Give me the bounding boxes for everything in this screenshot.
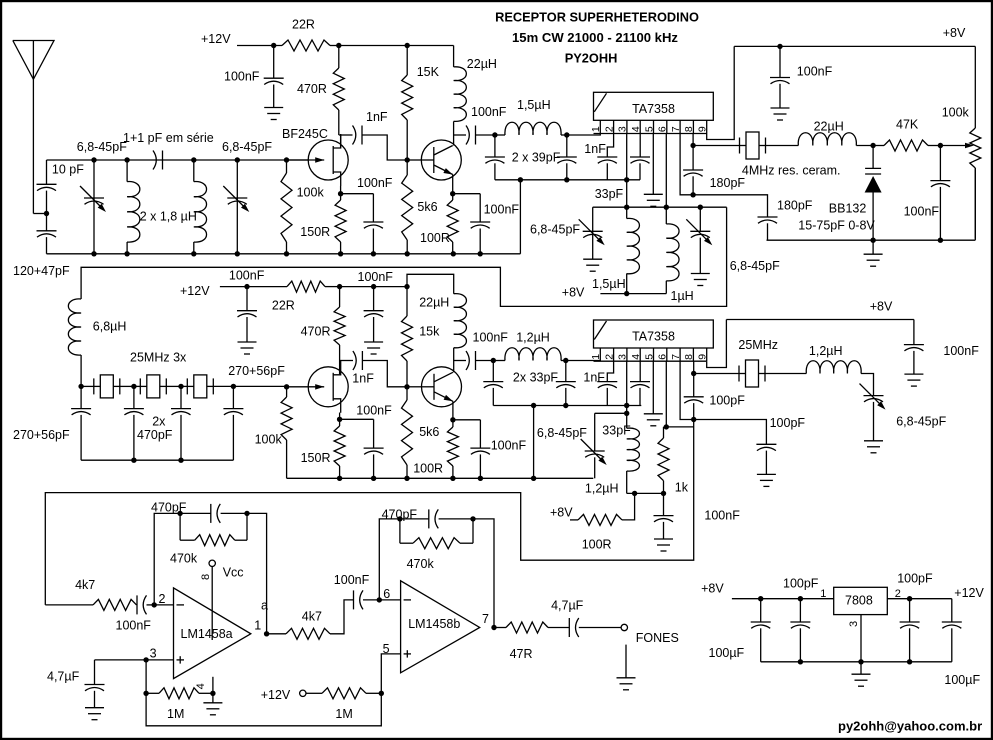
node base Q2 stage1 (405, 157, 410, 162)
svg-text:+8V: +8V (870, 300, 893, 314)
ground FONES (625, 645, 627, 678)
node 180pF bottom (690, 192, 695, 197)
resistor 22R stage2 (287, 281, 325, 292)
svg-text:2x 33pF: 2x 33pF (513, 371, 559, 385)
ground pin5 stage1 (652, 134, 654, 195)
svg-text:100R: 100R (413, 462, 443, 476)
svg-text:15-75pF 0-8V: 15-75pF 0-8V (798, 218, 875, 232)
wire pin9 to +8V rail (707, 46, 735, 139)
node pin6 1k (664, 424, 669, 429)
inductor 2x1,8uH coil B (191, 157, 196, 162)
node 100R up (632, 491, 637, 496)
svg-text:6,8-45pF: 6,8-45pF (896, 415, 946, 429)
resistor 100k stage1 (286, 160, 288, 173)
node source junction stage2 (337, 417, 342, 422)
svg-text:22R: 22R (292, 18, 315, 32)
svg-text:25MHz 3x: 25MHz 3x (130, 350, 187, 364)
node cap3 psu (907, 596, 912, 601)
node +8V coil (624, 291, 629, 296)
svg-text:10 pF: 10 pF (52, 163, 84, 177)
svg-text:6,8-45pF: 6,8-45pF (537, 426, 587, 440)
svg-text:100nF: 100nF (116, 618, 152, 632)
node 470k left A (177, 511, 182, 516)
wire emitter stage1 (452, 175, 454, 194)
wire pin6 down (665, 134, 667, 208)
svg-text:7808: 7808 (845, 594, 873, 608)
svg-text:4k7: 4k7 (75, 578, 95, 592)
capacitor 100nF source bypass stage2 (340, 418, 374, 420)
osc tank wire W1 (593, 206, 727, 208)
svg-text:22µH: 22µH (419, 296, 449, 310)
svg-text:+8V: +8V (701, 581, 724, 595)
capacitor 180pF pin8 (692, 146, 694, 171)
capacitor 1nF interstage stage1 (341, 134, 353, 136)
svg-text:100nF: 100nF (224, 70, 260, 84)
wire source to 150R (340, 186, 342, 194)
svg-text:2: 2 (603, 126, 615, 132)
svg-text:100pF: 100pF (770, 416, 806, 430)
pin3 stub 7808 (860, 615, 862, 662)
wire feedback B to output (473, 519, 494, 628)
ground bypass stage1 (273, 85, 275, 108)
svg-text:LM1458b: LM1458b (408, 617, 460, 631)
wire pin1 to filter2 (566, 360, 601, 363)
resistor 47K (884, 140, 928, 151)
wire 33pF bottom (493, 405, 641, 407)
svg-text:1: 1 (590, 126, 602, 132)
svg-text:Vcc: Vcc (223, 566, 244, 580)
crystal 4MHz resonator (739, 138, 741, 154)
capacitor 100pF out 2 (694, 420, 767, 445)
node 470k right A (244, 511, 249, 516)
node pin6 (377, 597, 382, 602)
resistor 100R stage2 (452, 420, 454, 427)
svg-text:6,8-45pF: 6,8-45pF (530, 223, 580, 237)
wire 39pF bottom (495, 179, 640, 181)
node filter right (231, 384, 236, 389)
svg-text:1M: 1M (167, 707, 184, 721)
trimmer 6,8-45pF input 1 (91, 157, 96, 162)
svg-text:120+47pF: 120+47pF (13, 264, 70, 278)
node base Q4 stage2 (404, 384, 409, 389)
wire pin5 up (381, 654, 400, 693)
resistor 100k stage2 (284, 384, 289, 389)
capacitor 33pF pin4 stage1 (639, 134, 641, 158)
svg-text:47K: 47K (896, 118, 919, 132)
capacitor 100nF varactor filter (939, 146, 941, 181)
svg-text:3: 3 (150, 646, 157, 660)
wire audio bottom (146, 693, 381, 726)
inductor 2x1,8uH coil A (124, 157, 129, 162)
svg-text:15K: 15K (417, 65, 440, 79)
capacitor 100nF audio in (136, 595, 138, 614)
resistor 4k7 B (286, 628, 330, 639)
resistor 1M B (306, 692, 322, 694)
svg-text:2x: 2x (152, 414, 166, 428)
resistor 150R stage1 (340, 194, 342, 200)
node 100nF +8V (777, 44, 782, 49)
svg-text:1nF: 1nF (352, 372, 374, 386)
svg-text:+12V: +12V (180, 284, 210, 298)
connector +12V circle (300, 690, 306, 696)
capacitor 270+56pF 2 (133, 386, 135, 408)
resistor 5k6 stage1 (406, 160, 408, 175)
resistor 470R (338, 46, 340, 69)
node psu bottom3 (907, 659, 912, 664)
wire filter bottom (81, 459, 233, 461)
capacitor 100uF psu1 (760, 599, 762, 622)
svg-text:3: 3 (617, 354, 629, 360)
svg-text:470pF: 470pF (151, 500, 187, 514)
node pin2 opamp A (152, 602, 157, 607)
resistor 150R stage2 (339, 419, 341, 426)
wire pin2 into opamp (154, 604, 173, 606)
capacitor 1+1pF series (162, 151, 164, 170)
svg-text:PY2OHH: PY2OHH (565, 50, 618, 65)
resistor 470R stage2 (339, 287, 341, 307)
capacitor 33pF left (492, 361, 494, 382)
svg-text:1nF: 1nF (584, 142, 606, 156)
capacitor 1nF interstage stage2 (340, 360, 353, 362)
node pin3 trimmer branch (624, 411, 629, 416)
transistor Q4 NPN stage2 (422, 367, 462, 407)
node filter1 right (564, 132, 569, 137)
wire long osc route to stage2 (81, 207, 727, 306)
wire rail to 15K and coil (339, 45, 454, 47)
wire audio feed route (45, 420, 693, 605)
inductor 1,5uH tank (626, 207, 628, 218)
svg-text:4,7µF: 4,7µF (47, 669, 80, 683)
svg-text:100nF: 100nF (356, 404, 392, 418)
node 1k bottom (661, 491, 666, 496)
svg-text:22µH: 22µH (467, 57, 497, 71)
wire 470R to drain stage2 (339, 361, 341, 375)
svg-text:+8V: +8V (943, 26, 966, 40)
node 470R top (336, 43, 341, 48)
svg-text:33pF: 33pF (595, 187, 624, 201)
svg-text:1M: 1M (335, 707, 352, 721)
resistor 470k B (399, 519, 401, 543)
trimmer 6,8-45pF mixer2 (595, 412, 627, 414)
ground psu (860, 662, 862, 674)
svg-text:100k: 100k (942, 106, 970, 120)
capacitor 100uF psu4 (951, 599, 953, 622)
svg-text:180pF: 180pF (710, 176, 746, 190)
wire pin1 to filter (567, 134, 601, 136)
svg-text:4,7µF: 4,7µF (551, 599, 584, 613)
svg-text:4: 4 (630, 126, 642, 132)
node 100k bottom rail (284, 251, 289, 256)
svg-text:1: 1 (820, 588, 826, 600)
svg-text:RECEPTOR SUPERHETERODINO: RECEPTOR SUPERHETERODINO (495, 9, 699, 24)
svg-text:6: 6 (657, 354, 669, 360)
svg-text:25MHz: 25MHz (738, 338, 778, 352)
node 470k left B (397, 516, 402, 521)
transistor BF245 Q3 JFET stage2 (308, 367, 348, 407)
wire osc bottom (767, 239, 976, 241)
inductor 22uH osc (798, 133, 856, 146)
svg-text:100nF: 100nF (358, 270, 394, 284)
wire bottom rail stage1 (47, 253, 521, 255)
svg-text:9: 9 (697, 354, 709, 360)
node output B (491, 625, 496, 630)
svg-text:100nF: 100nF (704, 509, 740, 523)
svg-text:1: 1 (590, 354, 602, 360)
wire 470R to JFET drain (340, 135, 342, 148)
node pin3 top (624, 177, 629, 182)
svg-text:100nF: 100nF (229, 268, 265, 282)
svg-text:100R: 100R (582, 538, 612, 552)
input tank: top rail stage1 (47, 159, 309, 161)
IF filter 2: inductor 1,2uH (505, 348, 561, 361)
node filter1 input (492, 132, 497, 137)
node ground drop filter1 (518, 177, 523, 182)
svg-text:100nF: 100nF (473, 331, 509, 345)
node pin3 top stage2 (624, 403, 629, 408)
svg-text:8: 8 (683, 354, 695, 360)
inductor 1uH tank (665, 207, 667, 224)
node 39pF right bottom (564, 177, 569, 182)
svg-text:7: 7 (670, 354, 682, 360)
svg-text:100nF: 100nF (943, 344, 979, 358)
svg-text:100k: 100k (255, 433, 283, 447)
svg-text:+12V: +12V (261, 688, 291, 702)
pin4 stub (212, 677, 214, 694)
node filter left (78, 384, 83, 389)
resistor 15k stage2 (406, 287, 408, 316)
capacitor 1nF mixer input stage2 (607, 361, 613, 381)
svg-text:2: 2 (603, 354, 615, 360)
svg-text:470R: 470R (301, 325, 331, 339)
node psu pin3 bottom (858, 659, 863, 664)
svg-text:py2ohh@yahoo.com.br: py2ohh@yahoo.com.br (838, 719, 982, 734)
capacitor 39pF right (566, 135, 568, 157)
crystal 25MHz a (93, 378, 95, 394)
node 15K top (405, 43, 410, 48)
resistor 100R stage1 (452, 194, 454, 200)
svg-text:100pF: 100pF (783, 576, 819, 590)
svg-text:470k: 470k (170, 552, 198, 566)
capacitor 100pF psu2 (799, 599, 801, 622)
capacitor 470pF B (400, 518, 429, 520)
node 470R top stage2 (337, 284, 342, 289)
svg-text:BF245C: BF245C (282, 127, 328, 141)
wire pin7 to 180pF node (680, 134, 693, 195)
op IC TA7358 #1 (594, 92, 714, 120)
wire pin6 into opamp (379, 599, 400, 601)
svg-text:3: 3 (848, 621, 860, 627)
capacitor 39pF left (494, 135, 496, 157)
svg-text:270+56pF: 270+56pF (13, 428, 70, 442)
capacitor 100nF emitter bypass stage1 (453, 193, 481, 195)
svg-text:6,8µH: 6,8µH (93, 319, 127, 333)
wire feedback A to output (247, 513, 267, 633)
svg-text:9: 9 (697, 126, 709, 132)
svg-text:TA7358: TA7358 (632, 330, 675, 344)
wire to 100nF B (330, 600, 354, 634)
crystal 25MHz output (738, 366, 740, 382)
inductor 1,2uH output (806, 361, 861, 374)
resistor 470k A (179, 513, 181, 540)
svg-text:+8V: +8V (562, 286, 585, 300)
node 15k top stage2 (404, 284, 409, 289)
wire coil to trimmer (861, 374, 874, 396)
svg-text:4k7: 4k7 (302, 610, 322, 624)
svg-text:1,2µH: 1,2µH (585, 481, 619, 495)
svg-text:6,8-45pF: 6,8-45pF (730, 259, 780, 273)
node pin4 (210, 691, 215, 696)
node emitter junction stage1 (450, 191, 455, 196)
crystal 25MHz b (139, 378, 141, 394)
node psu bottom2 (798, 659, 803, 664)
wire +8V rail stage2 (726, 319, 914, 321)
crystal 25MHz c (186, 378, 188, 394)
svg-text:5k6: 5k6 (417, 200, 437, 214)
capacitor 100nF bypass2 stage2 (373, 287, 375, 311)
svg-text:2 x 1,8 µH: 2 x 1,8 µH (140, 210, 197, 224)
node pin8 crystal (692, 134, 694, 146)
pin8 Vcc stub (211, 566, 213, 640)
trimmer 6,8-45pF input 2 (235, 157, 240, 162)
svg-text:100k: 100k (297, 186, 325, 200)
wire +8V node stage2 bottom (627, 492, 664, 494)
capacitor 100nF source bypass stage1 (372, 194, 374, 222)
svg-text:270+56pF: 270+56pF (228, 364, 285, 378)
svg-text:100µF: 100µF (709, 646, 745, 660)
capacitor 10pF (46, 160, 48, 184)
connector FONES (621, 624, 627, 630)
op-amp LM1458b U3b (401, 581, 480, 673)
svg-text:100pF: 100pF (897, 571, 933, 585)
svg-text:4: 4 (630, 354, 642, 360)
svg-text:150R: 150R (301, 451, 331, 465)
capacitor 4,7uF pin3 (95, 659, 147, 661)
output A node (264, 631, 269, 636)
capacitor 120+47pF (46, 214, 48, 231)
svg-text:8: 8 (683, 126, 695, 132)
node tank coil A (624, 205, 629, 210)
svg-text:6: 6 (657, 126, 669, 132)
svg-text:100pF: 100pF (709, 394, 745, 408)
svg-text:3: 3 (617, 126, 629, 132)
node pin8 crystal stage2 (693, 361, 695, 373)
svg-text:FONES: FONES (636, 631, 679, 645)
inductor 1,2uH tank stage2 (626, 413, 628, 428)
svg-text:+12V: +12V (954, 586, 984, 600)
node bypass1 stage2 (244, 284, 249, 289)
svg-text:4: 4 (195, 683, 207, 689)
wire psu rail (732, 598, 834, 600)
node bypass2 stage2 (371, 284, 376, 289)
node emitter junction stage2 (450, 417, 455, 422)
svg-text:150R: 150R (300, 225, 330, 239)
svg-text:180pF: 180pF (777, 199, 813, 213)
node 1M B right (379, 691, 384, 696)
inductor 22uH collector stage1 (453, 46, 455, 67)
capacitor 100nF B (353, 590, 355, 609)
svg-text:15m CW 21000 - 21100 kHz: 15m CW 21000 - 21100 kHz (512, 30, 678, 45)
svg-text:100nF: 100nF (904, 205, 940, 219)
svg-text:22R: 22R (272, 299, 295, 313)
svg-text:22µH: 22µH (814, 119, 844, 133)
svg-text:5: 5 (643, 354, 655, 360)
capacitor 33pF pin4 stage2 (639, 361, 641, 381)
capacitor 100nF +8V stage2 (913, 320, 915, 345)
capacitor 100nF bypass stage1 (273, 46, 275, 79)
svg-text:470k: 470k (407, 557, 435, 571)
capacitor 100nF emitter bypass stage2 (453, 419, 481, 421)
wire psu bottom (761, 661, 952, 663)
ground pin4 (212, 693, 214, 703)
transistor BF245C Q1 JFET (308, 140, 348, 180)
capacitor 2x470pF 3 (180, 386, 182, 408)
svg-text:5: 5 (383, 642, 390, 656)
svg-text:5: 5 (643, 126, 655, 132)
wire pin9 to +8V stage2 (707, 320, 727, 368)
svg-text:1k: 1k (675, 480, 689, 494)
resistor 5k6 stage2 (406, 387, 408, 400)
node xtal1-2 (131, 384, 136, 389)
svg-text:1nF: 1nF (583, 371, 605, 385)
svg-text:1: 1 (254, 618, 261, 632)
wire pin8 to 25MHz xtal (694, 373, 739, 375)
node cap2 psu (798, 596, 803, 601)
wire source bypass (341, 193, 374, 195)
op IC TA7358 #2 (594, 320, 714, 348)
crystal filter input: inductor 6,8uH (80, 298, 82, 300)
node 47K right (938, 143, 943, 148)
svg-text:100nF: 100nF (357, 176, 393, 190)
svg-text:1,5µH: 1,5µH (592, 277, 626, 291)
svg-text:7: 7 (670, 126, 682, 132)
svg-text:BB132: BB132 (829, 202, 867, 216)
wire +8V stub (600, 293, 666, 295)
resistor 1k (663, 427, 665, 438)
wire pin3 down (626, 134, 628, 208)
svg-text:6: 6 (383, 587, 390, 601)
node varactor top (870, 143, 875, 148)
node filter2 right (563, 358, 568, 363)
node xtal2-3 (178, 384, 183, 389)
svg-text:1+1 pF em série: 1+1 pF em série (123, 131, 214, 145)
svg-text:1,5µH: 1,5µH (517, 98, 551, 112)
capacitor 100nF coupling out stage1 (454, 134, 466, 136)
svg-text:100nF: 100nF (484, 203, 520, 217)
svg-text:1,2µH: 1,2µH (516, 330, 550, 344)
node 1M left (143, 691, 148, 696)
node filter2 input (491, 358, 496, 363)
capacitor 270+56pF 1 (80, 386, 82, 408)
capacitor 100nF +8V stage1 (779, 46, 781, 77)
inductor 22uH collector stage2 (407, 274, 454, 293)
node gate/100k (284, 157, 289, 162)
regulator 7808 U4 (834, 587, 888, 614)
svg-text:100nF: 100nF (334, 573, 370, 587)
resistor 1M A (159, 688, 199, 699)
ground pin5 stage2 (652, 361, 654, 414)
node pin3 (143, 657, 148, 662)
node 470k right B (470, 516, 475, 521)
wire antenna down (32, 79, 34, 213)
wire pin3 down to 1M (145, 660, 147, 693)
capacitor 100nF coupling out stage2 (454, 360, 466, 362)
capacitor 33pF right (565, 361, 567, 382)
feedback B wire up (379, 519, 400, 600)
svg-text:100µF: 100µF (944, 673, 980, 687)
node 100nF bottom (938, 238, 943, 243)
node 33pF right bottom (563, 403, 568, 408)
feedback A: wire up (154, 513, 180, 605)
